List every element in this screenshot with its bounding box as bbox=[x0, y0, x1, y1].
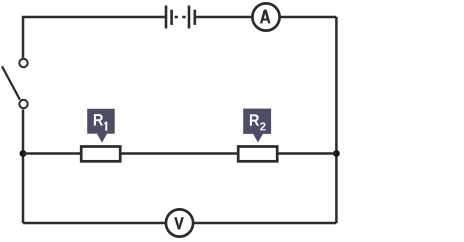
label R2 bbox=[243, 109, 271, 143]
wire middle left segment bbox=[23, 152, 81, 155]
battery B1 bbox=[166, 6, 195, 29]
node left junction bbox=[20, 150, 27, 157]
wire voltmeter to bottom-left corner bbox=[23, 222, 166, 225]
resistor R2 bbox=[238, 147, 277, 162]
wire top-left to battery bbox=[23, 17, 165, 58]
switch S1 bbox=[2, 59, 28, 108]
wire battery to ammeter bbox=[196, 16, 252, 19]
wire right side bbox=[335, 17, 338, 223]
wire middle centre segment bbox=[122, 152, 239, 155]
wire ammeter to top-right corner bbox=[280, 16, 336, 19]
ammeter A bbox=[252, 3, 279, 30]
wire middle right segment bbox=[279, 152, 337, 155]
node right junction bbox=[333, 150, 340, 157]
voltmeter V bbox=[166, 209, 193, 236]
resistor R1 bbox=[81, 147, 120, 162]
wire bottom-right to voltmeter bbox=[194, 222, 337, 225]
wire left side lower bbox=[22, 110, 25, 224]
label R1 bbox=[87, 109, 115, 143]
